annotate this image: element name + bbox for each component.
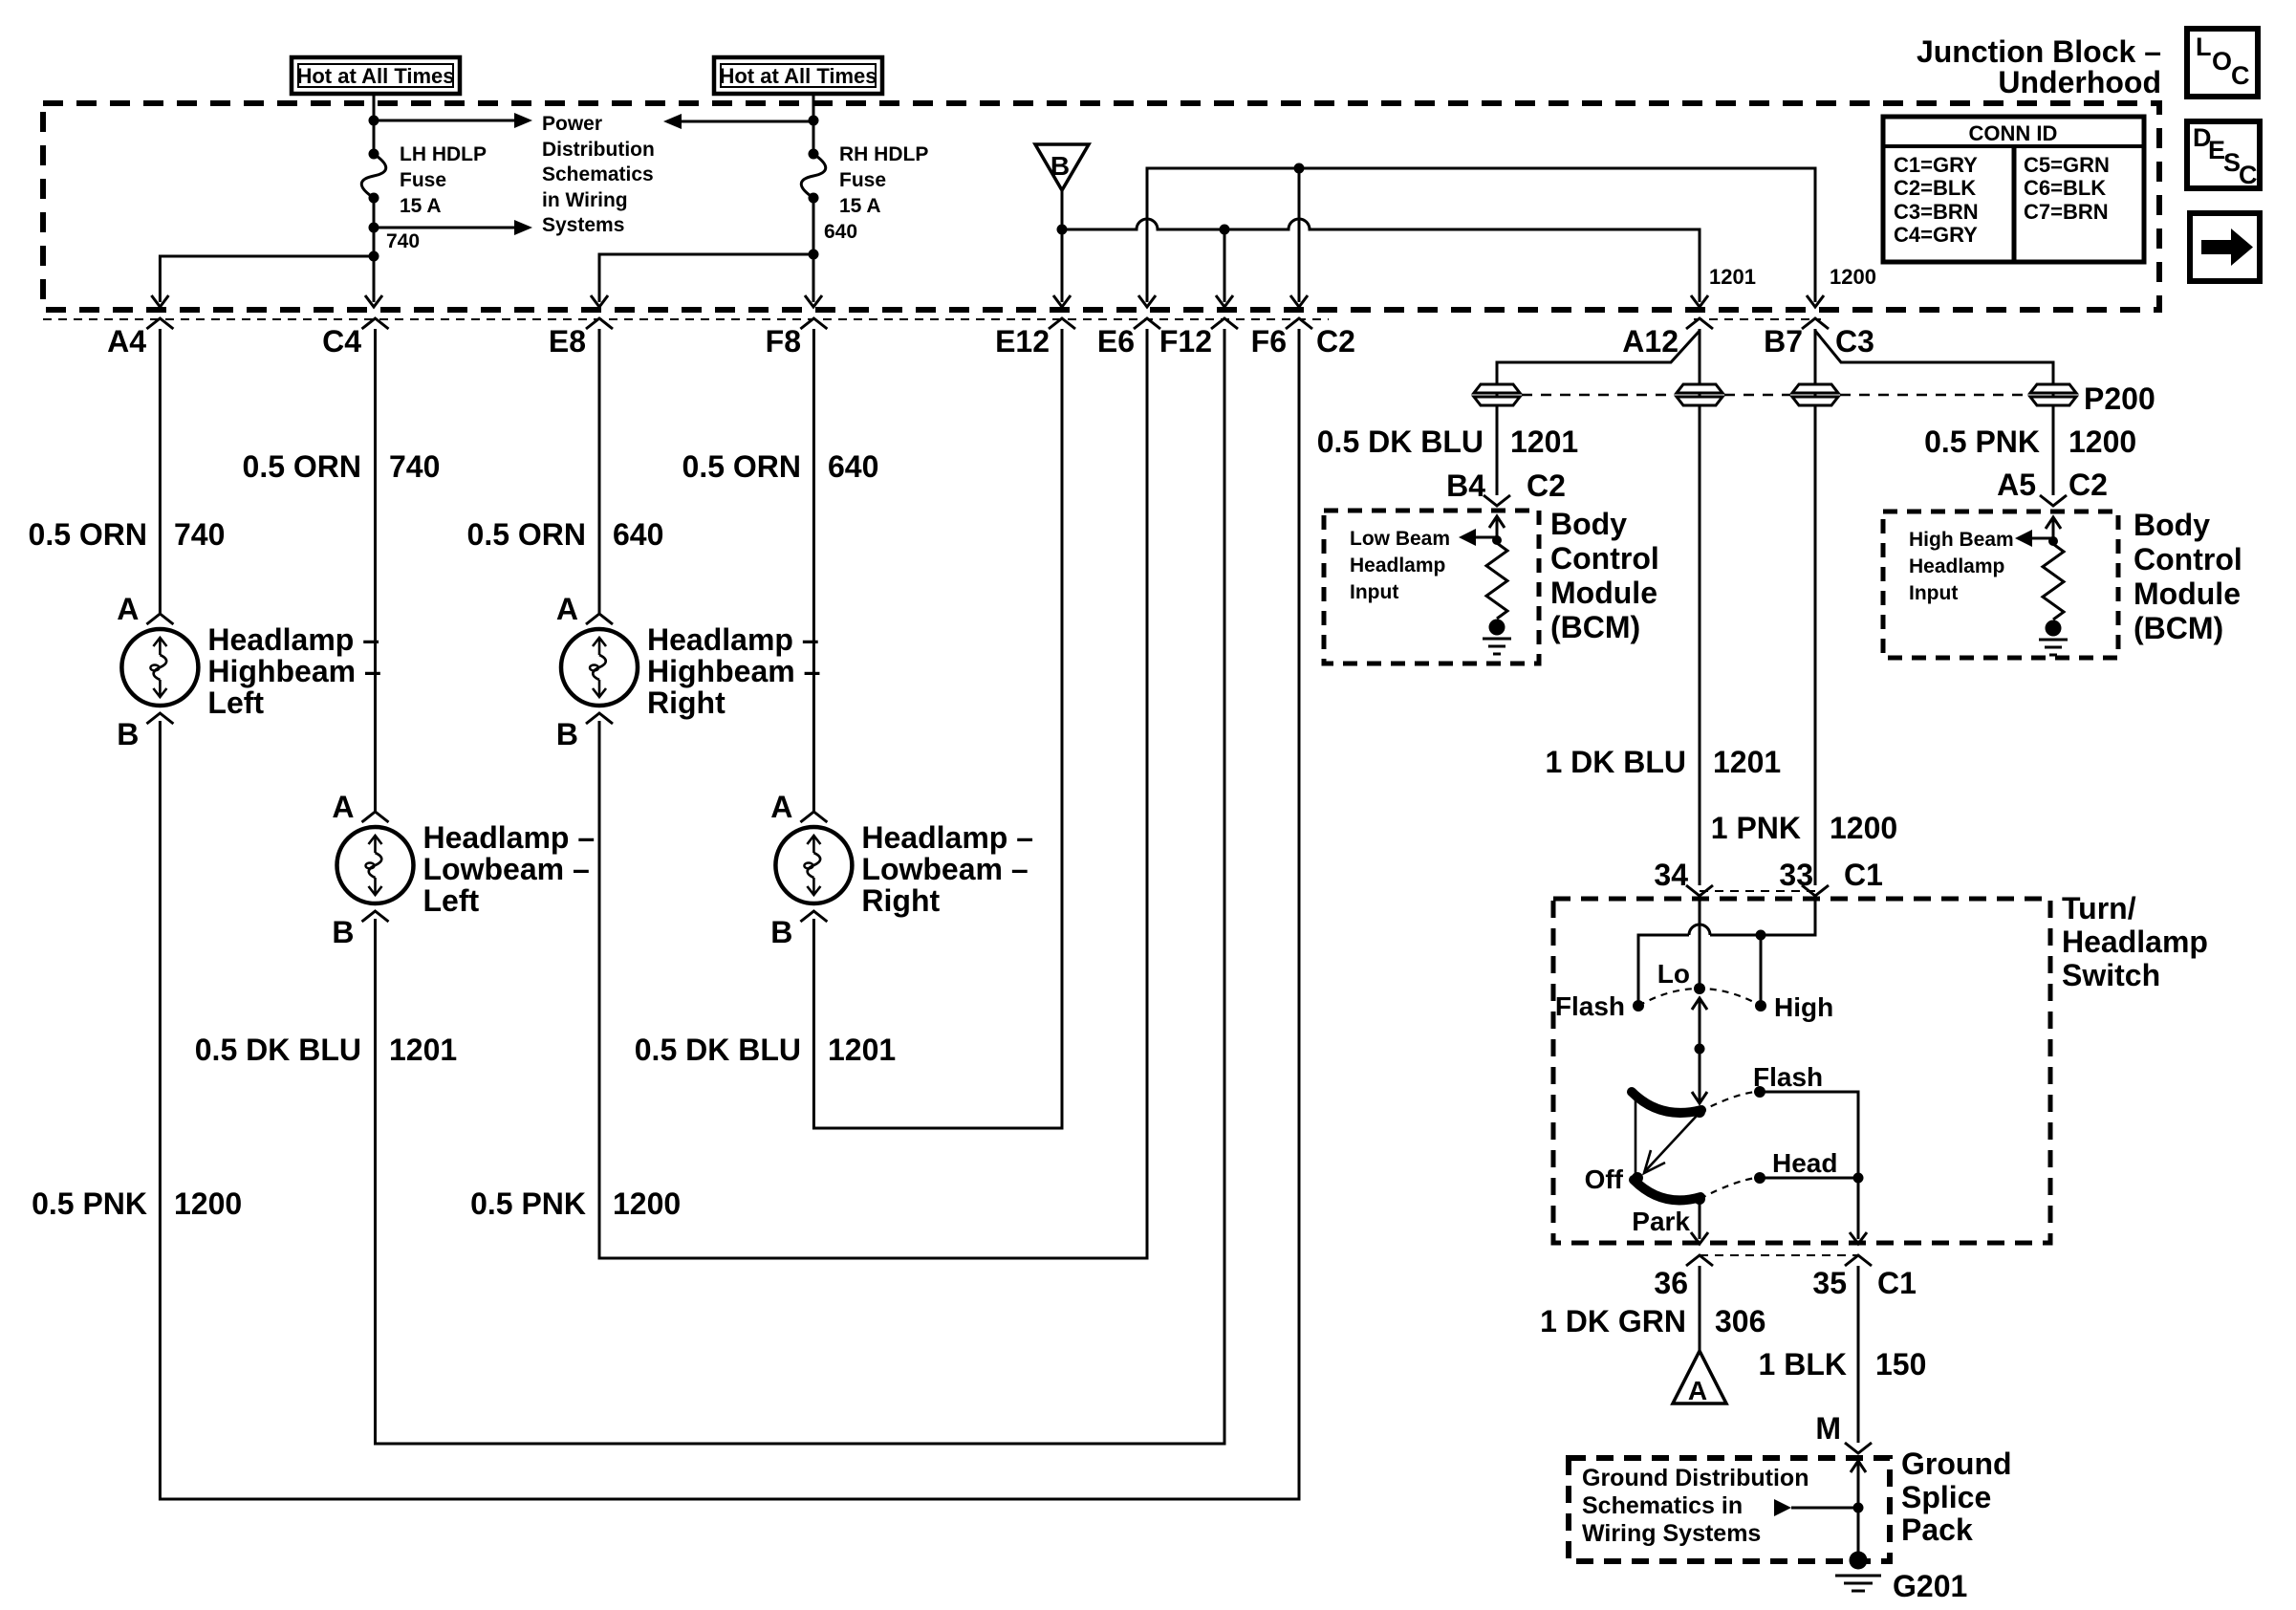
ground splice pack dashed box	[1569, 1458, 1890, 1561]
grommet on BCM low beam branch	[1474, 384, 1520, 393]
svg-text:Headlamp –: Headlamp –	[423, 820, 596, 855]
connector pin F8	[800, 318, 827, 329]
svg-text:C2: C2	[2069, 468, 2108, 502]
svg-text:CONN ID: CONN ID	[1969, 121, 2058, 145]
wire: RH fuse output 640	[812, 198, 815, 302]
wire: LH fuse output 740	[373, 198, 376, 302]
junction block dashed border	[43, 103, 2159, 310]
grommet P200	[2030, 384, 2076, 393]
svg-text:Headlamp: Headlamp	[2062, 925, 2208, 959]
contact: High	[1755, 1000, 1766, 1012]
svg-text:A: A	[770, 790, 792, 824]
wire: branch from A12 to BCM low beam input	[1497, 331, 1700, 495]
wire: pin 35 to ground splice pack (1 BLK 150)	[1857, 1266, 1860, 1443]
svg-text:Highbeam –: Highbeam –	[647, 654, 820, 688]
connector pin A12	[1686, 318, 1713, 329]
power box: Hot at All Times (left)	[292, 57, 460, 94]
svg-text:F6: F6	[1251, 324, 1287, 359]
svg-text:Headlamp: Headlamp	[1909, 555, 2004, 577]
svg-text:1200: 1200	[1830, 265, 1876, 289]
svg-text:Switch: Switch	[2062, 958, 2160, 992]
svg-text:C1: C1	[1844, 858, 1883, 892]
svg-text:Lowbeam –: Lowbeam –	[423, 852, 590, 886]
wire: Flash contact to pin 35	[1760, 1092, 1858, 1239]
svg-text:0.5 DK BLU: 0.5 DK BLU	[1317, 424, 1484, 459]
svg-text:1201: 1201	[1713, 745, 1781, 779]
svg-text:C4: C4	[322, 324, 361, 359]
svg-text:Module: Module	[1550, 576, 1657, 610]
svg-text:740: 740	[389, 449, 440, 484]
wire: pin 33 to dimmer outputs (hops over common)	[1638, 896, 1815, 1001]
svg-text:1201: 1201	[828, 1033, 896, 1067]
svg-text:M: M	[1815, 1411, 1841, 1446]
svg-text:1200: 1200	[174, 1186, 242, 1221]
wire: branch from B7 to BCM high beam input via P200	[1815, 331, 2053, 495]
node: branch to Systems arrow	[369, 223, 379, 233]
svg-text:C7=BRN: C7=BRN	[2024, 200, 2109, 224]
wire: Head contact to pin 35 wire	[1760, 1177, 1858, 1180]
wire: pin 34 into dimmer common	[1699, 896, 1701, 984]
main switch rotor arc (upper)	[1632, 1092, 1701, 1113]
svg-text:L: L	[2196, 33, 2212, 61]
arrow into connector F8	[805, 295, 822, 307]
svg-text:C6=BLK: C6=BLK	[2024, 176, 2106, 200]
connector pin E8	[586, 318, 613, 329]
lamp: Headlamp - Highbeam - Left	[117, 592, 380, 751]
title: Ground Splice Pack	[1901, 1447, 2012, 1547]
contact: Flash (dimmer)	[1633, 1000, 1644, 1012]
wire: pin 36 to off-page A (1 DK GRN 306)	[1699, 1266, 1701, 1351]
svg-text:Schematics in: Schematics in	[1582, 1492, 1743, 1519]
contact: Lo	[1694, 983, 1705, 994]
svg-text:Flash: Flash	[1555, 991, 1625, 1021]
pass-through dashed line	[1522, 394, 2028, 397]
svg-text:Junction Block –: Junction Block –	[1917, 34, 2161, 69]
svg-text:0.5 DK BLU: 0.5 DK BLU	[635, 1033, 801, 1067]
svg-text:Input: Input	[1909, 582, 1958, 604]
wire: branch over to pin E8	[599, 254, 813, 302]
node: tap to F12	[1220, 225, 1230, 235]
CONN ID table	[1883, 117, 2144, 262]
ground G201	[1835, 1552, 1881, 1592]
svg-text:Hot at All Times: Hot at All Times	[719, 64, 877, 88]
svg-text:E6: E6	[1097, 324, 1135, 359]
wire arrow (left-pointing) to Power Distribution text	[682, 120, 813, 123]
off-page connector triangle B	[1035, 144, 1089, 190]
fuse: LH HDLP Fuse 15 A	[361, 143, 487, 217]
fuse: RH HDLP Fuse 15 A	[801, 143, 928, 217]
contact: Head	[1754, 1172, 1765, 1184]
svg-text:Underhood: Underhood	[1998, 65, 2161, 99]
svg-text:C2: C2	[1527, 468, 1566, 503]
svg-text:C4=GRY: C4=GRY	[1894, 223, 1978, 247]
wire: highbeam-right B to connector E6 (0.5 PNK 1200)	[599, 329, 1147, 1258]
svg-text:Headlamp: Headlamp	[1350, 555, 1445, 577]
wire: RH battery feed from Hot at All Times	[812, 94, 815, 154]
arrow into connector E8	[591, 295, 608, 307]
wire: E8 down to highbeam-right lamp	[598, 329, 601, 614]
svg-text:Fuse: Fuse	[839, 169, 886, 191]
svg-text:306: 306	[1715, 1304, 1765, 1338]
svg-text:B: B	[117, 717, 139, 751]
svg-text:High Beam: High Beam	[1909, 529, 2014, 551]
svg-text:15 A: 15 A	[400, 195, 442, 217]
module: Body Control Module (BCM) high beam input	[1883, 508, 2242, 658]
svg-text:Wiring Systems: Wiring Systems	[1582, 1520, 1761, 1547]
svg-text:740: 740	[386, 230, 420, 252]
svg-text:LH HDLP: LH HDLP	[400, 143, 487, 165]
connector pin E12	[1049, 318, 1075, 329]
selector arrow toward Off	[1646, 1116, 1697, 1170]
svg-text:Park: Park	[1632, 1207, 1690, 1236]
svg-text:Right: Right	[647, 685, 726, 720]
wire: high beam feed net (1200) E6 to B7	[1147, 168, 1815, 302]
svg-text:Highbeam –: Highbeam –	[207, 654, 380, 688]
svg-text:Head: Head	[1772, 1148, 1837, 1178]
arrow into connector A12	[1691, 295, 1708, 307]
dashed contact path to Flash (main)	[1700, 1092, 1756, 1112]
node: RH feed branch to Power Distribution	[809, 116, 819, 126]
junction block title: Junction Block - Underhood	[1917, 34, 2161, 99]
connector pin B7	[1802, 318, 1829, 329]
svg-text:B: B	[770, 915, 792, 949]
dimmer contact arc (dashed)	[1638, 989, 1761, 1006]
svg-text:Ground: Ground	[1901, 1447, 2012, 1481]
svg-text:E8: E8	[549, 324, 586, 359]
svg-text:0.5 ORN: 0.5 ORN	[682, 449, 801, 484]
dashed contact path to Head	[1700, 1178, 1756, 1199]
svg-text:1201: 1201	[1709, 265, 1756, 289]
svg-text:Turn/: Turn/	[2062, 891, 2136, 925]
svg-text:(BCM): (BCM)	[1550, 610, 1640, 644]
svg-text:F12: F12	[1159, 324, 1212, 359]
svg-text:B: B	[556, 717, 578, 751]
svg-text:C: C	[2239, 161, 2258, 189]
svg-text:Systems: Systems	[542, 214, 624, 236]
connector face dashed line (left group)	[43, 318, 1329, 320]
wire: A12 to switch pin 34	[1699, 329, 1701, 885]
svg-text:A: A	[1688, 1376, 1707, 1405]
wire: Park output to pin 36	[1699, 1199, 1701, 1239]
grommet on B7 wire	[1792, 384, 1838, 393]
text: Power Distribution Schematics in Wiring Systems	[542, 113, 655, 236]
svg-text:High: High	[1774, 992, 1833, 1022]
svg-text:Body: Body	[1550, 507, 1627, 541]
off-page connector triangle A	[1673, 1351, 1726, 1405]
svg-text:B4: B4	[1446, 468, 1485, 503]
arrow into connector A4	[151, 295, 168, 307]
svg-text:A: A	[117, 592, 139, 626]
svg-text:Splice: Splice	[1901, 1480, 1991, 1514]
svg-text:C2=BLK: C2=BLK	[1894, 176, 1976, 200]
wire arrow to Power Distribution Schematics (top left)	[374, 120, 514, 122]
svg-text:1200: 1200	[613, 1186, 681, 1221]
contact: Flash (main)	[1754, 1086, 1765, 1098]
svg-text:1 DK BLU: 1 DK BLU	[1545, 745, 1686, 779]
svg-text:C2: C2	[1316, 324, 1355, 359]
contact: Off	[1632, 1172, 1643, 1184]
svg-text:P200: P200	[2084, 381, 2155, 416]
wire: lowbeam-right B to connector E12 (0.5 DK BLU 1201)	[813, 329, 1062, 1128]
module: Body Control Module (BCM) low beam input	[1324, 507, 1659, 664]
svg-text:C5=GRN: C5=GRN	[2024, 153, 2110, 177]
svg-text:RH HDLP: RH HDLP	[839, 143, 928, 165]
wire: branch over to pin A4	[160, 256, 374, 302]
wire: splice pack vertical with entry arrow	[1857, 1461, 1860, 1556]
node: LH feed branch to Power Distribution	[369, 116, 379, 126]
svg-text:in Wiring: in Wiring	[542, 189, 628, 211]
node: branch to E8	[809, 250, 819, 260]
switch title	[2062, 891, 2208, 992]
svg-text:G201: G201	[1893, 1569, 1967, 1603]
svg-text:Lowbeam –: Lowbeam –	[861, 852, 1028, 886]
svg-text:B: B	[332, 915, 354, 949]
svg-text:15 A: 15 A	[839, 195, 881, 217]
svg-text:1200: 1200	[2069, 424, 2136, 459]
arrow into connector C4	[365, 295, 382, 307]
svg-text:640: 640	[828, 449, 878, 484]
text: Ground Distribution Schematics in Wiring Systems	[1582, 1465, 1809, 1547]
lamp: Headlamp - Highbeam - Right	[556, 592, 820, 751]
svg-text:640: 640	[613, 517, 663, 552]
switch pins 36 / 35 / connector C1	[1700, 1254, 1858, 1256]
svg-text:A12: A12	[1622, 324, 1679, 359]
wire: lowbeam-left B to connector F12 (0.5 DK BLU 1201)	[376, 329, 1225, 1444]
svg-text:Power: Power	[542, 113, 602, 135]
svg-text:Right: Right	[861, 883, 940, 918]
svg-text:Fuse: Fuse	[400, 169, 446, 191]
svg-text:E12: E12	[995, 324, 1050, 359]
svg-text:F8: F8	[766, 324, 801, 359]
svg-text:1 DK GRN: 1 DK GRN	[1540, 1304, 1686, 1338]
svg-text:A: A	[556, 592, 578, 626]
connector pin A4	[146, 318, 173, 329]
svg-text:Pack: Pack	[1901, 1512, 1973, 1547]
node: tap to F6	[1294, 163, 1305, 174]
lamp: Headlamp - Lowbeam - Left	[332, 790, 595, 949]
thin link upper arc end to Off contact	[1635, 1096, 1637, 1176]
svg-text:C1=GRY: C1=GRY	[1894, 153, 1978, 177]
svg-text:1 PNK: 1 PNK	[1711, 811, 1801, 845]
LOC reference box	[2187, 29, 2258, 97]
svg-text:C3=BRN: C3=BRN	[1894, 200, 1979, 224]
svg-text:O: O	[2212, 47, 2232, 76]
connector face dashed line (A12/B7)	[1694, 318, 1821, 320]
arrows exiting switch	[1691, 1232, 1708, 1244]
svg-text:Distribution: Distribution	[542, 139, 655, 161]
svg-text:640: 640	[824, 221, 857, 243]
wire: drop to connector F12	[1224, 229, 1226, 302]
svg-text:0.5 ORN: 0.5 ORN	[243, 449, 361, 484]
svg-text:1201: 1201	[1510, 424, 1578, 459]
svg-text:Input: Input	[1350, 581, 1398, 603]
wire: highbeam-left B to connector F6 (0.5 PNK 1200)	[160, 329, 1299, 1499]
svg-text:A: A	[332, 790, 354, 824]
svg-text:0.5 PNK: 0.5 PNK	[470, 1186, 586, 1221]
connector pin C4	[362, 318, 389, 329]
svg-text:A4: A4	[107, 324, 146, 359]
node on splice wire	[1853, 1503, 1864, 1513]
grommet on A12 wire	[1677, 384, 1722, 393]
svg-text:35: 35	[1812, 1266, 1847, 1300]
connector pin F6	[1286, 318, 1312, 329]
svg-text:Lo: Lo	[1657, 959, 1690, 989]
svg-text:Low Beam: Low Beam	[1350, 528, 1450, 550]
wire: triangle B stem to connector E12	[1061, 190, 1064, 302]
wire: low beam feed net (1201) with hops over E6 and F6	[1062, 219, 1700, 302]
svg-text:150: 150	[1875, 1347, 1926, 1382]
next-page arrow box	[2190, 213, 2260, 281]
wire: C4 down to lowbeam-left lamp	[374, 329, 377, 812]
svg-text:(BCM): (BCM)	[2134, 611, 2223, 645]
svg-text:34: 34	[1654, 858, 1688, 892]
svg-text:Schematics: Schematics	[542, 163, 654, 185]
linkage: double arrow between dimmer and main switch	[1699, 998, 1701, 1103]
wire: LH battery feed from Hot at All Times	[373, 94, 376, 154]
svg-text:A5: A5	[1997, 468, 2036, 502]
wire arrow to Wiring Systems (lower left)	[374, 227, 514, 229]
wire: A4 down to highbeam-left lamp	[159, 329, 162, 614]
svg-text:Left: Left	[207, 685, 264, 720]
wire: B7 to switch pin 33	[1814, 329, 1817, 885]
svg-text:1200: 1200	[1830, 811, 1897, 845]
node: branch to A4	[369, 251, 379, 262]
wire: F8 down to lowbeam-right lamp	[812, 329, 815, 812]
connector pin E6	[1134, 318, 1160, 329]
arrow from ground distribution text to splice	[1774, 1499, 1791, 1516]
svg-text:Left: Left	[423, 883, 480, 918]
lamp: Headlamp - Lowbeam - Right	[770, 790, 1033, 949]
svg-text:Flash: Flash	[1753, 1062, 1823, 1092]
svg-text:33: 33	[1779, 858, 1813, 892]
svg-text:0.5 ORN: 0.5 ORN	[467, 517, 586, 552]
svg-text:Ground Distribution: Ground Distribution	[1582, 1465, 1809, 1491]
svg-text:B7: B7	[1764, 324, 1803, 359]
svg-text:Body: Body	[2134, 508, 2210, 542]
svg-text:1201: 1201	[389, 1033, 457, 1067]
wire: drop to connector F6	[1298, 168, 1301, 302]
svg-text:Headlamp –: Headlamp –	[647, 622, 819, 657]
connector pin F12	[1211, 318, 1238, 329]
main switch rotor arc (lower)	[1634, 1180, 1700, 1200]
node: low-beam net tap on E12 stem	[1057, 225, 1068, 235]
power box: Hot at All Times (right)	[714, 57, 882, 94]
DESC reference box	[2187, 121, 2260, 189]
svg-text:1 BLK: 1 BLK	[1759, 1347, 1847, 1382]
svg-text:Headlamp –: Headlamp –	[207, 622, 379, 657]
svg-text:C3: C3	[1835, 324, 1874, 359]
svg-text:B: B	[1051, 151, 1070, 181]
svg-text:0.5 DK BLU: 0.5 DK BLU	[195, 1033, 361, 1067]
svg-text:740: 740	[174, 517, 225, 552]
svg-text:Control: Control	[2134, 542, 2242, 577]
svg-text:36: 36	[1654, 1266, 1688, 1300]
svg-text:0.5 PNK: 0.5 PNK	[32, 1186, 147, 1221]
svg-text:Hot at All Times: Hot at All Times	[296, 64, 454, 88]
node: Head joins pin 35 wire	[1853, 1173, 1864, 1184]
svg-text:Module: Module	[2134, 577, 2241, 611]
svg-text:Control: Control	[1550, 541, 1659, 576]
svg-text:0.5 PNK: 0.5 PNK	[1924, 424, 2040, 459]
switch box: Turn/Headlamp Switch	[1553, 899, 2050, 1243]
node and branch to High contact	[1756, 930, 1766, 941]
svg-text:Off: Off	[1585, 1164, 1624, 1194]
svg-text:C: C	[2231, 61, 2250, 90]
svg-text:C1: C1	[1877, 1266, 1917, 1300]
svg-text:Headlamp –: Headlamp –	[861, 820, 1033, 855]
rotor pivot contact	[1694, 1106, 1705, 1118]
svg-text:0.5 ORN: 0.5 ORN	[29, 517, 147, 552]
